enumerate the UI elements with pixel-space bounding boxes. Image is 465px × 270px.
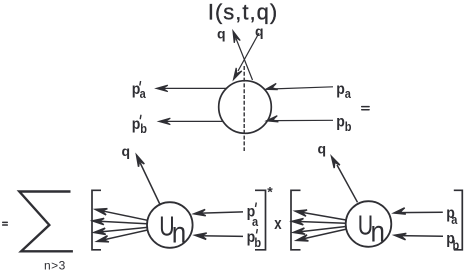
incoming line p_b with arrow (right diagram) [394,232,443,240]
svg-text:a: a [345,87,352,101]
label p_b (bottom right) [446,230,459,253]
svg-text:b: b [345,120,352,134]
left square bracket (first factor) [92,190,101,250]
fan line 1 with arrow (left diagram) [95,206,148,220]
left square bracket (second factor) [291,190,301,250]
label p_a (top right) [336,80,351,101]
label p'_b (top left) [132,115,147,136]
summation sigma [19,192,73,252]
fan line 3 with arrow (left diagram) [94,227,147,235]
svg-text:*: * [267,184,273,200]
blob circle (top diagram) [219,81,272,134]
incoming line p_a with arrow (right diagram) [393,208,442,216]
q line outgoing with arrow up-left (top diagram) [230,30,252,80]
right square bracket (first factor) [255,190,266,250]
svg-text:q: q [122,143,131,159]
svg-text:b: b [140,123,147,137]
svg-text:p: p [336,113,345,131]
label p_b (top right) [336,113,351,135]
incoming line p_b (top diagram) [266,116,333,124]
fan line 2 with arrow (left diagram) [92,218,147,225]
prime of p'_b (top left) [139,115,142,120]
incoming stub p'_b with arrow (left diagram) [195,232,243,239]
prime of p'_a (top left) [139,81,142,86]
svg-text:b: b [254,237,261,251]
prime of p'_b (center) [256,229,259,234]
fan line 2 with arrow (right diagram) [292,218,346,225]
svg-text:p: p [132,115,141,133]
label p'_a (center) [247,203,259,229]
fan line 4 with arrow (right diagram) [296,229,347,243]
q line with arrow (right diagram) [329,155,358,202]
outgoing line p'_a (top diagram) [156,85,226,91]
Un circle (right diagram) [346,201,392,247]
Un label (left diagram) [159,211,186,249]
svg-text:q: q [217,26,226,42]
outgoing line p'_b (top diagram) [159,118,223,124]
incoming line p_a (top diagram) [265,83,333,92]
Un label (right diagram) [358,210,385,248]
label p_a (bottom right) [446,204,457,227]
label p'_a (top left) [132,80,146,101]
svg-text:x: x [274,214,282,233]
q line incoming with arrow toward circle (top diagram) [231,33,259,81]
svg-text:q: q [318,141,327,157]
svg-text:n: n [371,215,385,248]
right square bracket (second factor) [454,190,463,250]
label p'_b (center) [247,228,262,250]
equals sign (bottom left) [2,222,8,226]
svg-text:p: p [336,80,345,98]
svg-text:I(s,t,q): I(s,t,q) [208,0,278,24]
incoming stub p'_a with arrow (left diagram) [194,209,243,217]
q line with arrow (left diagram) [134,154,160,205]
equals sign (top right) [361,106,370,111]
prime of p'_a (center) [255,203,258,208]
fan line 3 with arrow (right diagram) [293,227,346,236]
svg-text:n: n [172,216,186,249]
svg-text:n>3: n>3 [44,259,66,270]
dashed cut line [243,66,245,151]
fan line 1 with arrow (right diagram) [295,208,346,220]
Un circle (left diagram) [147,202,193,248]
svg-text:a: a [140,87,147,101]
svg-text:q: q [255,23,264,39]
fan line 4 with arrow (left diagram) [96,230,147,245]
svg-text:a: a [451,214,458,228]
